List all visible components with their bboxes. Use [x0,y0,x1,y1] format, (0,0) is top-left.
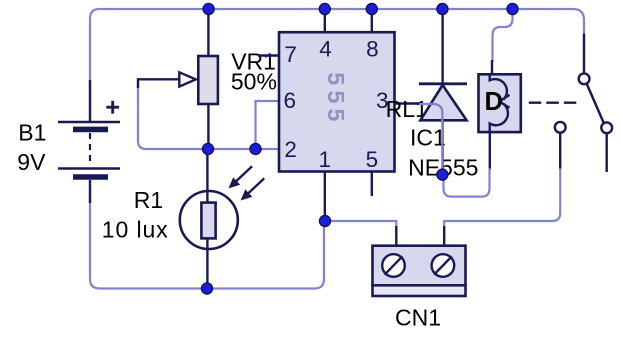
wire top rail [90,9,584,84]
relay linkage dashed [529,101,577,103]
wire pin 3 to node [419,104,442,175]
svg-text:D: D [485,88,503,116]
node top rail at coil [507,3,518,14]
node top rail at pin 4 [319,3,330,14]
R1 light arrow 2 [247,178,265,195]
IC1 body [279,32,395,171]
switch blade [587,84,605,125]
relay RL1 coil [479,9,521,170]
svg-text:50%: 50% [231,69,277,95]
switch common terminal [579,73,590,84]
VR1 wiper line [138,79,180,88]
coil symbol [490,74,507,99]
wire node to pin 6 [256,101,280,149]
diode bottom lead [441,120,443,175]
coil top pin [491,60,493,74]
wire wiper loop to pin 2 [138,85,279,149]
svg-text:B1: B1 [18,120,46,146]
diode top lead [441,9,443,84]
battery cell2 thick plate [73,174,108,180]
battery middle dashed link [89,133,91,166]
node bottom rail at R1 [201,283,212,294]
IC1 pin 4 stub [324,9,326,34]
node diode bottom [437,169,448,180]
svg-text:555: 555 [323,72,349,126]
IC1 pin 8 stub [371,9,373,34]
switch top pin [583,34,585,74]
svg-text:R1: R1 [134,187,163,213]
svg-text:CN1: CN1 [395,305,441,331]
svg-text:4: 4 [319,36,332,61]
potentiometer VR1 [138,9,218,149]
VR1 top lead [207,9,209,57]
node top rail at pin 8 [366,3,377,14]
CN1 right pin [443,226,445,246]
wire coil bottom to node [444,168,490,197]
svg-text:IC1: IC1 [410,124,446,150]
CN1 screw 2 [432,254,455,277]
diode D1 flyback [419,9,467,175]
wire bottom rail [90,198,324,289]
switch NO stub [606,133,608,172]
coil body box [479,74,521,132]
node pin2/pin6 [250,143,261,154]
IC1 pin 1 stub [324,171,326,221]
VR1 wiper arrowhead [179,72,196,86]
IC1 pin 5 stub [371,171,373,196]
battery bottom pin [89,180,91,203]
wire pin 1 down and to CN1 left [325,218,397,230]
battery plus sign [106,101,119,114]
svg-text:10 lux: 10 lux [102,216,169,242]
svg-text:9V: 9V [17,149,46,175]
VR1 bottom lead [207,104,209,149]
coil top wire [493,9,513,62]
CN1 body [373,246,466,286]
wire CN1 right to switch [444,165,560,230]
VR1 body [198,56,218,104]
op-amp: none; IC 555 [258,9,420,221]
battery cell2 long plate [58,167,120,170]
R1 lead inside [206,192,208,248]
battery cell1 long plate [58,121,120,124]
R1 circle [180,191,238,249]
coil bottom pin [489,132,491,170]
connector CN1 [373,226,466,296]
svg-text:1: 1 [319,147,332,172]
CN1 bottom strip [373,285,466,296]
LDR R1 [180,149,264,289]
R1 light arrow 1 [235,166,253,183]
R1 vertical lead [206,149,208,289]
svg-text:5: 5 [366,147,379,172]
switch NC terminal [555,122,566,133]
CN1 screw 1 [382,254,405,277]
diode cathode bar [419,82,467,85]
coil arrow [499,95,509,108]
node top rail at diode [437,3,448,14]
CN1 left pin [395,226,397,246]
battery top pin [89,80,91,122]
svg-text:6: 6 [283,88,296,113]
svg-text:8: 8 [366,37,379,62]
R1 body [201,203,215,239]
battery cell1 thick plate [73,127,108,133]
svg-text:2: 2 [284,137,297,162]
switch NC stub [559,133,561,169]
node top rail at VR1 [203,3,214,14]
IC1 pin 7 stub [258,54,280,56]
switch NO terminal [601,122,612,133]
node VR1 bottom [202,143,213,154]
node pin1/CN1 [319,215,330,226]
battery B1 [58,80,120,203]
svg-text:7: 7 [284,42,297,67]
relay switch contacts [529,34,612,173]
IC1 pin 3 stub [394,102,420,104]
diode triangle [420,85,466,120]
